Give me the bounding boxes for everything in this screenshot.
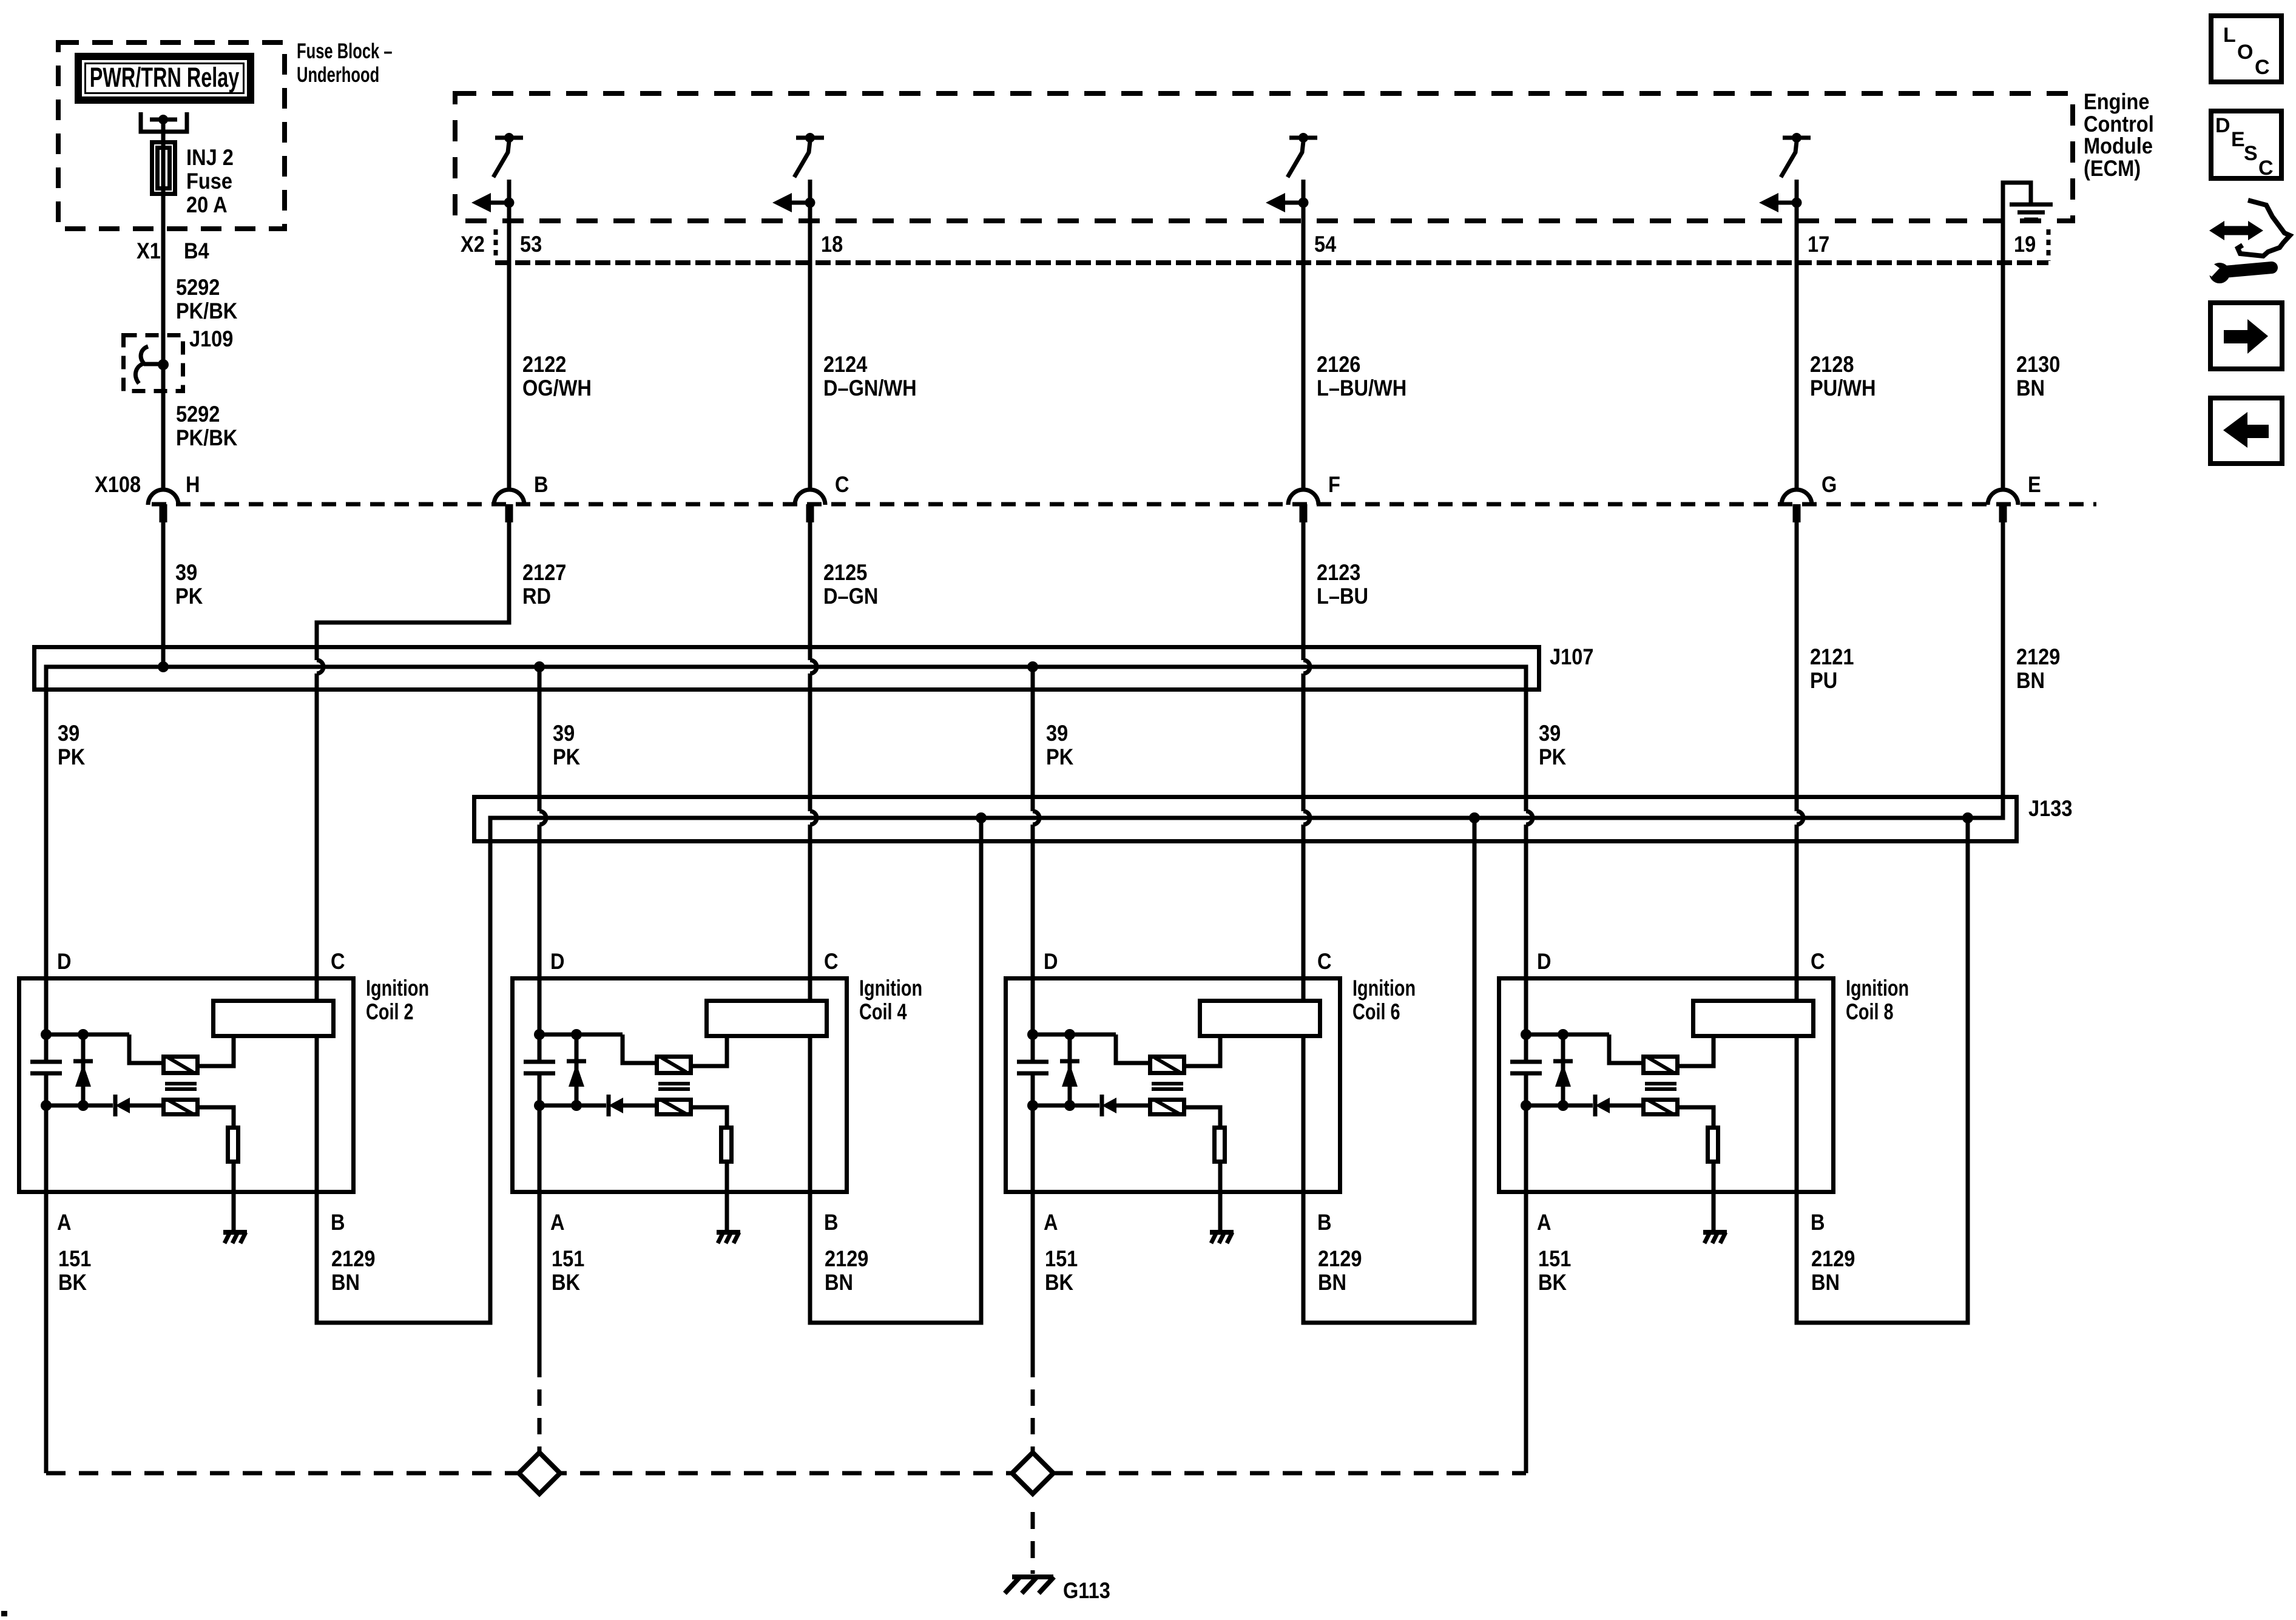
svg-text:D: D — [1537, 949, 1551, 974]
svg-text:C: C — [2258, 157, 2274, 180]
svg-text:OG/WH: OG/WH — [522, 376, 592, 400]
svg-text:G: G — [1822, 472, 1837, 497]
svg-text:BK: BK — [58, 1270, 87, 1295]
svg-text:BN: BN — [1318, 1270, 1346, 1295]
svg-text:L: L — [2223, 24, 2236, 47]
svg-text:39: 39 — [175, 560, 197, 585]
svg-text:Underhood: Underhood — [297, 63, 379, 87]
svg-text:17: 17 — [1808, 232, 1829, 257]
svg-text:151: 151 — [552, 1246, 584, 1271]
svg-text:151: 151 — [1538, 1246, 1571, 1271]
svg-text:20 A: 20 A — [186, 192, 228, 217]
svg-text:2129: 2129 — [1318, 1246, 1362, 1271]
svg-text:5292: 5292 — [176, 402, 220, 427]
svg-text:PWR/TRN Relay: PWR/TRN Relay — [90, 63, 240, 93]
svg-text:2130: 2130 — [2016, 352, 2060, 377]
svg-text:C: C — [1811, 949, 1825, 974]
svg-text:(ECM): (ECM) — [2084, 156, 2141, 181]
svg-text:Engine: Engine — [2084, 89, 2150, 114]
svg-text:B: B — [1811, 1210, 1825, 1235]
svg-text:C: C — [331, 949, 345, 974]
svg-text:S: S — [2244, 142, 2258, 165]
svg-text:Module: Module — [2084, 133, 2153, 158]
svg-text:2126: 2126 — [1317, 352, 1360, 377]
svg-text:2125: 2125 — [823, 560, 867, 585]
svg-text:L–BU/WH: L–BU/WH — [1317, 376, 1406, 400]
svg-text:B: B — [824, 1210, 839, 1235]
svg-text:J107: J107 — [1550, 644, 1593, 669]
svg-text:54: 54 — [1314, 232, 1337, 257]
svg-text:2124: 2124 — [823, 352, 868, 377]
svg-text:C: C — [824, 949, 839, 974]
svg-text:C: C — [835, 472, 849, 497]
svg-text:PK: PK — [175, 584, 203, 609]
svg-text:Fuse Block –: Fuse Block – — [297, 39, 393, 63]
svg-text:BN: BN — [331, 1270, 360, 1295]
svg-text:BN: BN — [2016, 376, 2045, 400]
svg-text:151: 151 — [1045, 1246, 1078, 1271]
svg-text:PK: PK — [58, 744, 85, 769]
svg-text:BK: BK — [1538, 1270, 1567, 1295]
svg-text:Coil 8: Coil 8 — [1846, 1000, 1894, 1025]
svg-text:39: 39 — [1539, 721, 1561, 746]
svg-text:2129: 2129 — [331, 1246, 375, 1271]
svg-text:151: 151 — [58, 1246, 91, 1271]
svg-text:PU: PU — [1810, 668, 1837, 693]
svg-text:Ignition: Ignition — [1352, 976, 1416, 1001]
svg-text:39: 39 — [553, 721, 575, 746]
svg-text:A: A — [550, 1210, 565, 1235]
svg-text:PK/BK: PK/BK — [176, 299, 237, 323]
svg-text:2129: 2129 — [2016, 644, 2060, 669]
svg-text:2128: 2128 — [1810, 352, 1854, 377]
svg-text:RD: RD — [522, 584, 551, 609]
svg-text:D: D — [1044, 949, 1058, 974]
svg-text:D: D — [57, 949, 72, 974]
svg-text:PU/WH: PU/WH — [1810, 376, 1876, 400]
svg-text:L–BU: L–BU — [1317, 584, 1368, 609]
svg-text:X1: X1 — [137, 238, 161, 263]
svg-text:C: C — [1317, 949, 1332, 974]
svg-text:2129: 2129 — [1811, 1246, 1855, 1271]
svg-text:18: 18 — [821, 232, 843, 257]
svg-text:A: A — [1537, 1210, 1551, 1235]
svg-text:D: D — [2215, 114, 2230, 137]
svg-text:Ignition: Ignition — [859, 976, 922, 1001]
svg-text:B4: B4 — [184, 238, 209, 263]
svg-text:E: E — [2231, 128, 2245, 151]
svg-text:A: A — [57, 1210, 72, 1235]
svg-text:Coil 2: Coil 2 — [366, 1000, 414, 1025]
svg-text:Coil 4: Coil 4 — [859, 1000, 907, 1025]
svg-text:O: O — [2237, 41, 2253, 64]
svg-text:J133: J133 — [2028, 796, 2072, 821]
svg-text:Fuse: Fuse — [186, 169, 232, 194]
svg-text:BN: BN — [2016, 668, 2045, 693]
svg-text:PK: PK — [1539, 744, 1566, 769]
svg-text:2123: 2123 — [1317, 560, 1360, 585]
svg-text:X108: X108 — [95, 472, 141, 497]
svg-text:B: B — [331, 1210, 345, 1235]
svg-text:B: B — [1317, 1210, 1332, 1235]
svg-text:2122: 2122 — [522, 352, 566, 377]
svg-text:Coil 6: Coil 6 — [1352, 1000, 1400, 1025]
svg-text:INJ 2: INJ 2 — [186, 145, 234, 170]
svg-text:BK: BK — [1045, 1270, 1073, 1295]
svg-text:BN: BN — [1811, 1270, 1840, 1295]
svg-text:D–GN: D–GN — [823, 584, 878, 609]
svg-text:5292: 5292 — [176, 275, 220, 300]
svg-text:39: 39 — [58, 721, 79, 746]
svg-text:Ignition: Ignition — [366, 976, 429, 1001]
svg-text:2121: 2121 — [1810, 644, 1854, 669]
svg-text:19: 19 — [2014, 232, 2036, 257]
svg-text:D–GN/WH: D–GN/WH — [823, 376, 917, 400]
svg-text:PK: PK — [553, 744, 580, 769]
svg-text:Ignition: Ignition — [1846, 976, 1909, 1001]
svg-text:39: 39 — [1046, 721, 1068, 746]
svg-text:A: A — [1044, 1210, 1058, 1235]
svg-text:2127: 2127 — [522, 560, 566, 585]
svg-text:G113: G113 — [1063, 1578, 1110, 1603]
svg-text:X2: X2 — [461, 232, 485, 257]
svg-text:PK/BK: PK/BK — [176, 425, 237, 450]
svg-text:C: C — [2255, 56, 2270, 79]
svg-text:H: H — [186, 472, 200, 497]
svg-text:53: 53 — [520, 232, 542, 257]
svg-text:B: B — [534, 472, 549, 497]
svg-text:D: D — [550, 949, 565, 974]
svg-text:BK: BK — [552, 1270, 580, 1295]
svg-text:J109: J109 — [189, 326, 233, 351]
svg-text:PK: PK — [1046, 744, 1073, 769]
svg-text:E: E — [2028, 472, 2041, 497]
svg-text:2129: 2129 — [825, 1246, 868, 1271]
svg-text:F: F — [1328, 472, 1340, 497]
svg-text:BN: BN — [825, 1270, 853, 1295]
